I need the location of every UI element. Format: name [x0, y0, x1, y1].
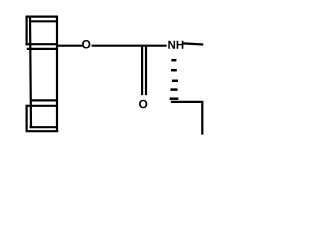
ring long inner-left vertical: [30, 16, 31, 128]
ring horizontal bond y44: [28, 43, 58, 45]
hashed stereo bond dash 5: [170, 97, 179, 100]
hashed stereo bond dash 3: [172, 80, 178, 83]
ring horizontal bond y106: [26, 105, 58, 107]
ring outer left vertical (top square): [26, 16, 28, 46]
ring right vertical edge: [56, 16, 58, 132]
bond O to carbonyl C and on to NH: [92, 45, 167, 47]
ring bottom inner double-bond line: [30, 126, 58, 128]
atom label N of NH (amide): [168, 41, 175, 49]
ring horizontal bond y49: [27, 48, 58, 50]
ring horizontal bond y100: [30, 99, 57, 101]
carbonyl C=O double bond line 2: [145, 47, 147, 95]
ring top outer edge: [26, 16, 58, 18]
bond N to methyl: [183, 43, 203, 44]
chain bond C to CH2: [171, 101, 203, 103]
ring outer left vertical (bottom square): [26, 105, 28, 132]
atom label O (carbonyl oxygen): [139, 100, 147, 108]
hashed stereo bond dash 4: [170, 88, 177, 91]
ring bottom outer edge: [26, 130, 59, 132]
atom label H of NH (amide): [177, 41, 184, 49]
chain bond CH2 to CH3: [201, 101, 203, 135]
hashed stereo bond dash 2: [171, 69, 177, 72]
carbonyl C=O double bond line 1: [141, 47, 143, 95]
ring top inner double-bond line: [30, 20, 57, 22]
atom label O (ester oxygen): [82, 40, 90, 48]
bond ring to O: [57, 45, 83, 47]
hashed stereo bond dash 1: [171, 59, 176, 62]
